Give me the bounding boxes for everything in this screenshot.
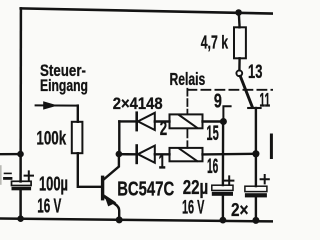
diode D2 (1N4148) bbox=[137, 113, 155, 130]
switch contact 13 (open circle) bbox=[236, 70, 242, 76]
wire: input corner down to resistor bbox=[77, 106, 79, 122]
input arrow (Steuer-Eingang) bbox=[36, 101, 78, 109]
node: pin11 / pin16 junction bbox=[252, 150, 259, 157]
wire: stub to left edge bbox=[0, 153, 21, 155]
node: left rail junction bbox=[17, 151, 24, 158]
resistor 4,7k bbox=[234, 27, 246, 58]
node: right capacitor ground bbox=[252, 217, 259, 224]
node: left rail to ground bus bbox=[17, 215, 24, 222]
svg-text:4,7 k: 4,7 k bbox=[201, 32, 229, 52]
svg-text:2×4148: 2×4148 bbox=[113, 94, 163, 113]
wire: left rail lower segment bbox=[19, 190, 22, 219]
capacitor C 100µ bbox=[12, 171, 34, 190]
svg-text:16: 16 bbox=[207, 155, 218, 178]
svg-text:15: 15 bbox=[206, 122, 219, 145]
wire: resistor to transistor base bbox=[78, 153, 101, 187]
relay coil K2 bbox=[170, 148, 203, 161]
capacitor C 22µ (left) bbox=[212, 176, 234, 195]
wire: diode rows left link bbox=[118, 121, 120, 154]
svg-text:1: 1 bbox=[159, 152, 166, 174]
wire: resistor to contact 13 bbox=[238, 58, 241, 70]
svg-text:2: 2 bbox=[160, 118, 167, 140]
svg-text:9: 9 bbox=[214, 90, 222, 112]
node: capacitor ground bbox=[220, 217, 227, 224]
wire: capacitor to ground bus bbox=[222, 195, 224, 220]
diode D1 (1N4148) bbox=[137, 146, 155, 163]
wire: right capacitor to ground bus bbox=[255, 197, 257, 221]
wire: pin15 node down to capacitor bbox=[222, 122, 225, 186]
relay coil K1 bbox=[170, 114, 203, 128]
cut-off capacitor fragment at left edge bbox=[5, 173, 12, 178]
wire: arm to node 11/16 bbox=[255, 108, 257, 154]
switch arm bbox=[240, 76, 252, 107]
wire: row2 left segment bbox=[119, 120, 135, 122]
resistor 100k bbox=[72, 122, 83, 153]
wire: coil K2 pin16 to switch node bbox=[203, 153, 256, 156]
wire: top supply rail bbox=[21, 8, 273, 13]
node: emitter to ground bus bbox=[116, 216, 123, 223]
scan smudge at left edge bbox=[0, 166, 2, 184]
node: collector / diode row 1 bbox=[116, 151, 123, 158]
svg-text:13: 13 bbox=[248, 62, 262, 83]
wire: coil K1 to node 15 bbox=[203, 120, 224, 122]
dashed continuation at right edge bbox=[270, 135, 273, 158]
wire: node down to capacitor (right) bbox=[255, 154, 257, 186]
wire: left rail upper segment bbox=[19, 8, 22, 181]
svg-text:BC547C: BC547C bbox=[117, 178, 174, 200]
svg-text:16 V: 16 V bbox=[182, 196, 204, 218]
svg-text:16 V: 16 V bbox=[37, 195, 62, 217]
wire: row1 to relay coil 2 bbox=[155, 153, 170, 155]
svg-text:100µ: 100µ bbox=[39, 174, 68, 196]
svg-text:Relais: Relais bbox=[170, 69, 206, 89]
svg-text:100k: 100k bbox=[36, 127, 66, 149]
relay mechanical dashed linkage bbox=[187, 89, 273, 148]
svg-text:2×: 2× bbox=[231, 200, 249, 220]
wire: row2 to relay coil 1 bbox=[155, 120, 170, 122]
switch arm end bar bbox=[248, 107, 260, 109]
node: supply to 4,7k bbox=[235, 9, 242, 16]
wire: supply to resistor 4,7k bbox=[238, 13, 241, 28]
svg-text:11: 11 bbox=[259, 91, 270, 112]
pin 9 stub bbox=[223, 106, 230, 121]
transistor BC547C bbox=[103, 154, 120, 220]
wire: row1 left segment bbox=[119, 153, 136, 156]
capacitor C 22µ (right) bbox=[245, 175, 269, 197]
svg-text:Eingang: Eingang bbox=[40, 77, 88, 95]
wire: bottom ground bus bbox=[0, 219, 273, 222]
node: pin15 junction bbox=[220, 118, 227, 125]
